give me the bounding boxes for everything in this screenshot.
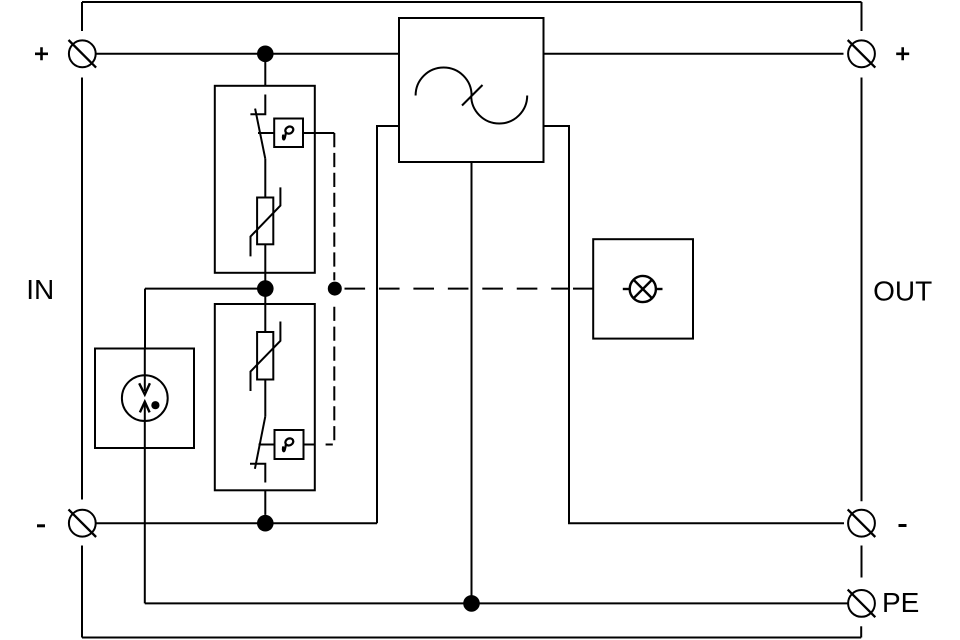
spark gap: arrowhead down [139, 383, 150, 394]
wire thermal sensor upper to box edge [303, 132, 315, 134]
spark gap: arrowhead up [140, 402, 150, 413]
lamp: lead right [656, 288, 663, 290]
box thermal sensor lower [275, 430, 304, 459]
wire IN branch horizontal [145, 288, 265, 290]
wire plus input rail [96, 53, 399, 55]
thermal disconnect switch upper: fixed contact [250, 95, 265, 115]
spark gap: electrode wire bottom to PE rail [144, 402, 146, 604]
converter symbol: right arc [471, 96, 527, 124]
wire upper blade to varistor [264, 159, 266, 198]
node junction on minus rail [257, 515, 274, 532]
node junction monitor bus [328, 282, 342, 296]
lamp: circle [630, 276, 656, 302]
varistor lower: diagonal [251, 322, 281, 392]
wire right border below PE [860, 626, 862, 637]
terminal left plus [69, 40, 97, 68]
label plus right [896, 47, 909, 60]
terminal PE [848, 590, 876, 618]
wire right border middle [861, 78, 863, 502]
wire drop to upper protector [264, 54, 266, 86]
wire PE rail [145, 602, 849, 604]
box lower protector F2 [215, 304, 315, 490]
wire lamp lead solid [573, 288, 593, 290]
svg-text:IN: IN [26, 274, 54, 305]
converter symbol: left arc [416, 68, 472, 96]
wire bottom border [82, 637, 861, 639]
wire top border [82, 1, 862, 3]
wire left border middle [81, 78, 83, 500]
wire varistor upper to node [264, 244, 266, 304]
wire plus output rail [544, 53, 844, 55]
wire node to varistor lower [264, 304, 266, 332]
dashed monitor line to lamp [345, 288, 571, 290]
wire right border upper [861, 2, 863, 31]
wire switch link to thermal sensor upper [258, 132, 274, 134]
varistor upper: diagonal [251, 187, 281, 256]
wire lower protector to minus rail [264, 490, 266, 515]
box indicator lamp H1 [593, 239, 693, 338]
label theta lower [283, 437, 295, 451]
label minus left [37, 524, 45, 527]
lamp: lead left [623, 288, 630, 290]
dashed monitor bus vertical upper [333, 133, 335, 280]
dashed monitor bus vertical lower [326, 307, 335, 445]
wire converter center drop to PE rail [471, 162, 473, 603]
wire left border lower [81, 546, 83, 638]
wire minus input: rail from left terminal [96, 522, 377, 524]
node junction between protectors [257, 280, 274, 297]
terminal left minus [69, 509, 97, 537]
thermal disconnect switch upper: blade [255, 109, 265, 159]
varistor lower: body [257, 332, 273, 380]
svg-text:OUT: OUT [873, 276, 932, 307]
box spark gap F3 [95, 349, 194, 449]
box converter U1 [399, 18, 544, 162]
spark gap: trigger dot [151, 401, 159, 409]
thermal disconnect switch lower: fixed contact [250, 464, 265, 483]
lamp: cross stroke 1 [634, 280, 652, 298]
spark gap: electrode wire top [144, 349, 146, 392]
node junction on plus rail [257, 46, 274, 63]
terminal right minus [848, 509, 876, 537]
terminal right plus [848, 40, 876, 68]
lamp: cross stroke 2 [634, 280, 652, 298]
wire minus output from converter [544, 126, 845, 523]
thermal disconnect switch lower: blade [255, 416, 265, 468]
node junction on PE rail [463, 595, 480, 612]
box upper protector F1 [215, 86, 315, 273]
wire right border between minus and PE [861, 546, 863, 578]
svg-text:PE: PE [882, 587, 919, 618]
varistor upper: body [257, 198, 273, 245]
converter symbol: slash [462, 85, 483, 106]
label plus left [35, 47, 48, 60]
wire varistor lower to blade [264, 380, 266, 417]
dashed link upper theta to monitor bus [315, 132, 335, 134]
wire switch link to thermal sensor lower [259, 444, 275, 446]
box thermal sensor upper [274, 119, 303, 148]
spark gap: envelope circle [122, 375, 168, 421]
wire minus input riser to converter [377, 126, 399, 523]
label minus right [899, 524, 907, 527]
wire left border upper [81, 2, 83, 31]
wire thermal sensor lower to box edge [304, 444, 315, 446]
label theta upper [283, 125, 295, 139]
wire IN branch down to spark gap [144, 289, 146, 349]
